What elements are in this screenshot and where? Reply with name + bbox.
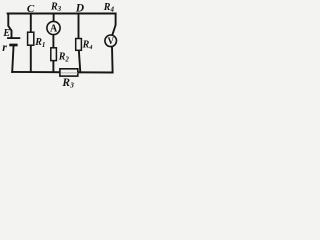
svg-text:E: E [2, 28, 10, 39]
svg-text:r: r [2, 40, 7, 54]
resistor R2 box [51, 48, 57, 61]
wire: node D to R4 top [78, 14, 80, 39]
wire: left edge lower (battery bottom lead) [12, 47, 13, 72]
svg-text:V: V [108, 36, 115, 46]
wire: bottom bus (passes through R3 box) [12, 71, 112, 74]
svg-text:C: C [27, 3, 35, 15]
wire: R1 bottom to bottom bus [30, 46, 32, 72]
wire: R2 bottom to bottom bus [52, 61, 54, 72]
resistor R4 box [76, 39, 82, 51]
svg-text:D: D [75, 3, 85, 15]
wire: left edge upper (battery top lead) [8, 14, 11, 38]
resistor R3 box (horizontal, in bottom bus) [60, 69, 78, 76]
wire: R4 bottom to bottom bus [79, 51, 80, 72]
svg-text:A: A [50, 24, 58, 35]
voltmeter V circle [105, 35, 117, 47]
ammeter A circle [47, 21, 60, 34]
battery E short plate [9, 44, 17, 47]
resistor R1 box [28, 32, 34, 45]
wire: ammeter branch top lead [53, 14, 55, 22]
faint bus trace inside R3 box [61, 72, 78, 74]
wire: top bus from top-left corner to top-right corner [8, 13, 116, 15]
wire: ammeter to R2 top [52, 35, 54, 48]
wire: node C to R1 top [30, 14, 32, 32]
wire: right edge upper (voltmeter top lead) [112, 14, 115, 35]
wire: right edge lower (voltmeter bottom lead) [111, 46, 114, 72]
battery E long plate [7, 37, 20, 39]
background [0, 0, 123, 88]
